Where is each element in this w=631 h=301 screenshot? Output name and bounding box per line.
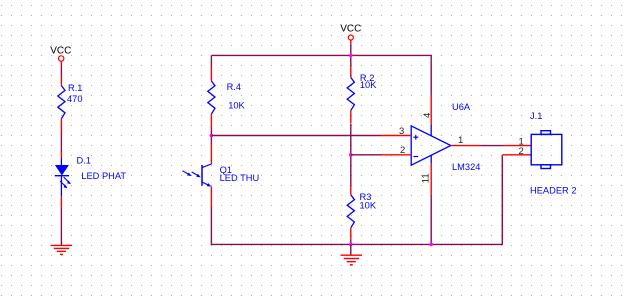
- svg-text:10K: 10K: [360, 200, 377, 210]
- svg-text:1: 1: [458, 135, 463, 146]
- wire node to op-amp pin3: [211, 135, 381, 137]
- wire R1 to D1: [60, 132, 62, 152]
- wire VCC2 down to R2: [350, 44, 352, 66]
- svg-text:10K: 10K: [360, 80, 377, 90]
- wire R3 to bottom rail: [350, 241, 352, 245]
- svg-text:4: 4: [422, 113, 433, 118]
- svg-text:R.1: R.1: [68, 83, 82, 93]
- wire bottom rail and up to header pin2: [211, 156, 502, 245]
- ground (middle): [341, 255, 363, 265]
- junction (VCC2 / top rail): [349, 54, 353, 58]
- ground (left): [51, 245, 73, 254]
- resistor R4: [208, 68, 246, 128]
- svg-text:R.4: R.4: [227, 82, 241, 92]
- junction (R4 / Q1 / pin3 wire): [210, 134, 214, 138]
- power symbol VCC (left): [50, 46, 71, 65]
- svg-text:VCC: VCC: [340, 23, 361, 34]
- LED D1: [55, 152, 127, 208]
- resistor R1: [58, 76, 83, 132]
- junction (pin11 / rail): [429, 243, 433, 247]
- svg-text:HEADER 2: HEADER 2: [530, 185, 577, 195]
- junction (R3 / ground / rail): [349, 243, 353, 247]
- resistor R2: [347, 66, 377, 123]
- power symbol VCC (middle): [340, 23, 361, 44]
- svg-text:LED THU: LED THU: [220, 173, 260, 183]
- svg-text:VCC: VCC: [50, 46, 71, 57]
- svg-text:11: 11: [421, 173, 432, 183]
- wire op-amp output to header: [481, 145, 503, 147]
- svg-text:2: 2: [400, 145, 405, 156]
- wire ground stub (middle): [350, 244, 352, 254]
- svg-text:10K: 10K: [228, 100, 245, 110]
- transistor Q1: [183, 144, 260, 207]
- wire rail to R4: [210, 55, 212, 68]
- connector J1: [502, 111, 576, 195]
- wire op-amp pin11 down to rail: [430, 194, 432, 244]
- svg-text:LM324: LM324: [452, 162, 480, 172]
- wire D1 to ground: [60, 208, 62, 245]
- junction (R2 / op-amp pin2 wire): [349, 153, 353, 157]
- wire R2 bottom to R3 top: [350, 124, 352, 187]
- svg-text:J.1: J.1: [530, 111, 542, 121]
- svg-text:U6A: U6A: [452, 102, 471, 112]
- op-amp U6A: [381, 96, 481, 195]
- resistor R3: [347, 186, 377, 240]
- wire R4 bottom to Q1 collector: [210, 128, 212, 144]
- wire node to op-amp pin2: [351, 154, 381, 156]
- svg-text:LED PHAT: LED PHAT: [81, 171, 126, 181]
- svg-text:470: 470: [67, 94, 83, 104]
- svg-text:2: 2: [519, 146, 524, 157]
- svg-text:D.1: D.1: [77, 156, 91, 166]
- svg-text:3: 3: [399, 126, 404, 137]
- wire VCC to R1: [60, 65, 62, 76]
- wire top rail: [211, 55, 431, 95]
